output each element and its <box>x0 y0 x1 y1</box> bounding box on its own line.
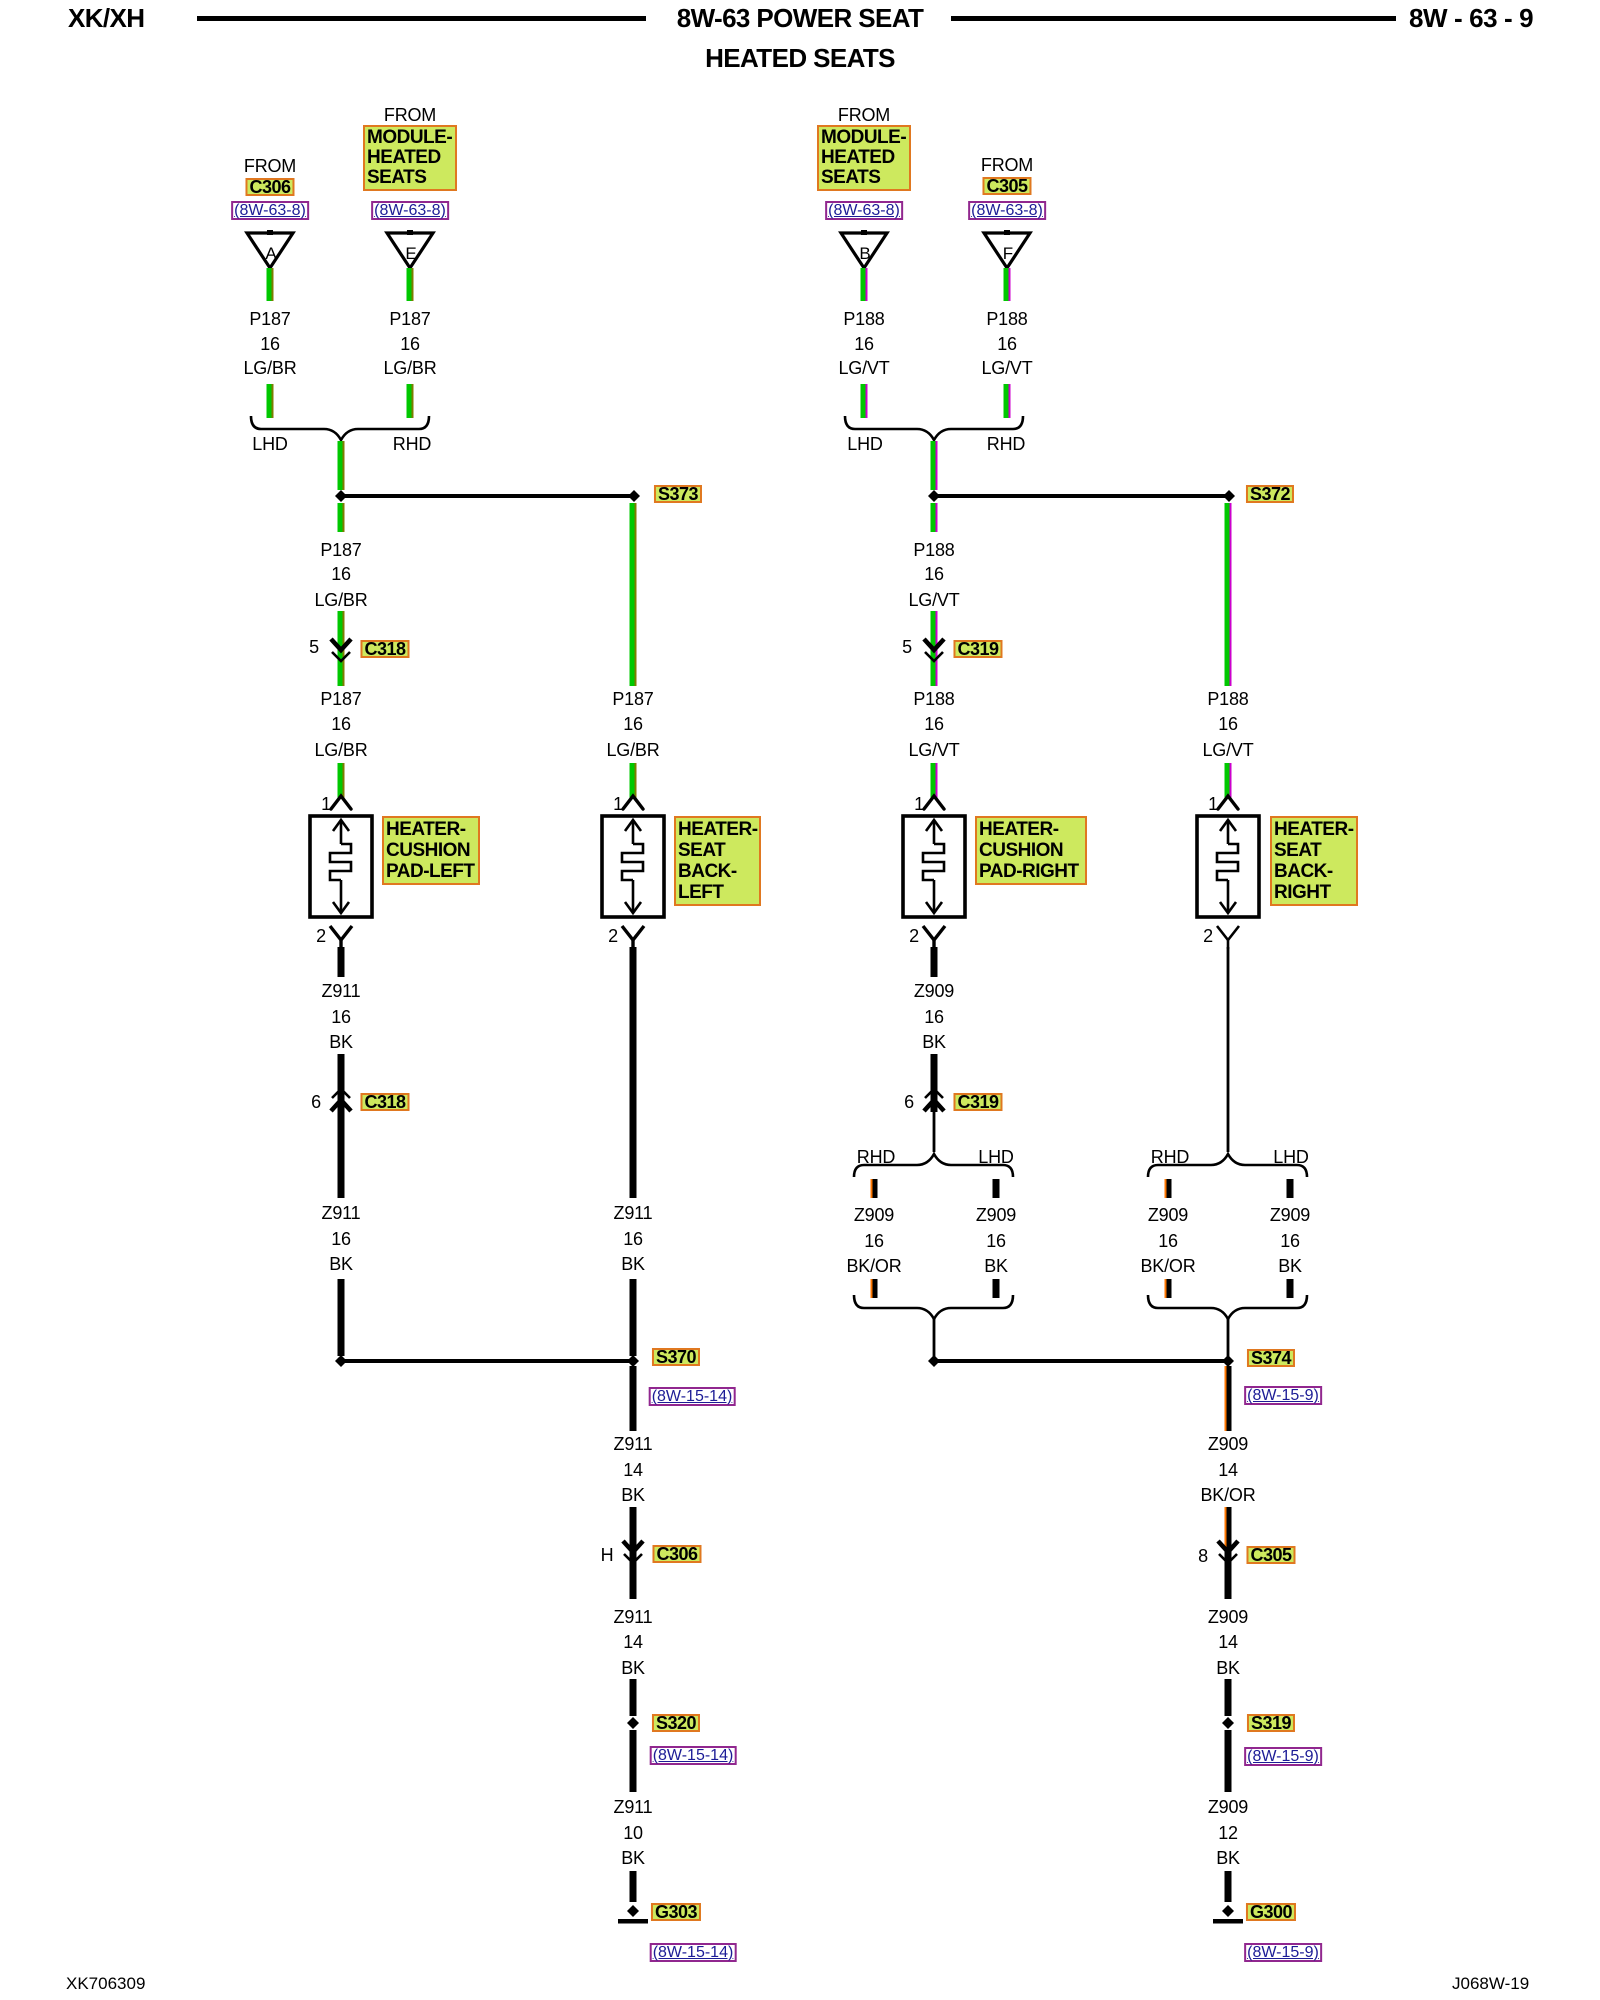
wire P188 below C319 label P188 <box>913 690 954 709</box>
wire S374 horizontal <box>934 1359 1228 1363</box>
brace RHD/LHD split (cushion right) <box>854 1154 1013 1177</box>
wire Z911 col2 upper <box>630 947 637 1198</box>
connector C318 label (pin 6) <box>360 1093 409 1111</box>
wire Z909 14 BK labels label BK <box>1216 1659 1240 1678</box>
link 8W-15-14 (S370) <box>649 1387 736 1406</box>
heater element - seat back right <box>1197 816 1259 917</box>
connector F (from C305) <box>984 230 1030 268</box>
brace RHD/LHD split (seat back right) <box>1148 1154 1307 1177</box>
wire P188 mid col3 label LG/VT <box>908 591 959 610</box>
splice S370 label <box>652 1348 700 1366</box>
wire P187 col2 label LG/BR <box>606 741 659 760</box>
wire Z911 10 to ground label 10 <box>623 1824 643 1843</box>
wire Z909 BK labels (seat back) label Z909 <box>1270 1206 1310 1225</box>
wire Z911 14 below S370 label BK <box>621 1486 645 1505</box>
label LHD (left merge) <box>252 435 287 454</box>
pin 1 fork (heater cushion left) <box>331 796 351 809</box>
wire Z911 col2 to S370 <box>630 1279 637 1356</box>
wire Z911 below C306 label BK <box>621 1659 645 1678</box>
wire P187 mid col1 label 16 <box>331 565 351 584</box>
pin 8 of C305 <box>1198 1547 1208 1566</box>
wire P187 below C318 label 16 <box>331 715 351 734</box>
splice S320 label <box>652 1714 700 1732</box>
wire Z909 BK/OR labels (cushion) label Z909 <box>854 1206 894 1225</box>
wire P188 col4 label 16 <box>1218 715 1238 734</box>
footer: drawing number left <box>66 1974 145 1994</box>
wire Z909 BK stub upper (LHD, cushion) <box>993 1179 1000 1198</box>
wire Z909 BK stub upper (LHD, seat back) <box>1287 1179 1294 1198</box>
wire P188 col B label LG/VT <box>838 359 889 378</box>
module-heated seats box (left) <box>363 125 457 191</box>
wire P188 col F label P188 <box>986 310 1027 329</box>
wire Z911 col2 label 16 <box>623 1230 643 1249</box>
pin 1 fork (heater seat back left) <box>623 796 643 809</box>
splice S373 node left <box>335 490 347 502</box>
link 8W-15-9 (S374) <box>1244 1386 1322 1405</box>
wire Z911 col2 label Z911 <box>614 1204 653 1223</box>
wire Z911 col1 lower label Z911 <box>322 1204 361 1223</box>
module-heated seats box (right) <box>817 125 911 191</box>
wire Z909 from C319 to brace <box>933 1112 936 1152</box>
pin 1 heater cushion right <box>914 795 924 814</box>
wire Z911 below heater cushion left <box>338 947 345 977</box>
page header: subtitle <box>705 45 895 71</box>
splice S370 node right <box>627 1355 639 1367</box>
wire P187 below C318 label P187 <box>320 690 361 709</box>
svg-text:F: F <box>1003 244 1013 263</box>
wire Z909 14 BK/OR labels label 14 <box>1218 1461 1238 1480</box>
heater-seat back-right label <box>1270 816 1358 906</box>
pin 2 heater seat back right <box>1203 927 1213 946</box>
wire Z909 to G300 <box>1225 1871 1232 1902</box>
wire S373 horizontal <box>341 494 633 498</box>
wire Z911 above C318 pin6 <box>338 1054 345 1198</box>
link 8W-15-14 (G303) <box>650 1943 737 1962</box>
brace LHD/RHD merge (right seat) <box>845 416 1023 440</box>
wire P187 col E label LG/BR <box>383 359 436 378</box>
splice S373 label <box>654 485 702 503</box>
wire P188 col F label LG/VT <box>981 359 1032 378</box>
pin 1 heater seat back right <box>1208 795 1218 814</box>
pin 2 heater cushion right <box>909 927 919 946</box>
label LHD (cushion right split) <box>978 1148 1013 1167</box>
wire Z911 col1 upper label BK <box>329 1033 353 1052</box>
ground G300 <box>1213 1905 1243 1924</box>
label LHD (seat back split) <box>1273 1148 1308 1167</box>
wire P187 col A label P187 <box>249 310 290 329</box>
wire Z911 below C306 label 14 <box>623 1633 643 1652</box>
heater-cushion pad-right label <box>975 816 1087 885</box>
wire Z911 10 to ground label Z911 <box>614 1798 653 1817</box>
wire Z909 col3 label Z909 <box>914 982 954 1001</box>
wire Z911 below S370 <box>630 1366 637 1431</box>
wire Z911 to S370 <box>338 1279 345 1356</box>
wire Z911 col2 label BK <box>621 1255 645 1274</box>
page header: section title <box>677 5 924 31</box>
wire P188 merged below brace <box>931 441 938 490</box>
pin 2 heater seat back left <box>608 927 618 946</box>
connector C319 pin 6 (inline) <box>924 1089 944 1111</box>
pin 2 fork (heater cushion right) <box>923 926 945 949</box>
splice S319 node <box>1222 1717 1234 1729</box>
connector C305 label (pin 8) <box>1246 1546 1295 1564</box>
connector C319 label (pin 6) <box>953 1093 1002 1111</box>
wire Z909 14 BK/OR labels label Z909 <box>1208 1435 1248 1454</box>
connector C318 label (pin 5) <box>360 640 409 658</box>
wire P188 stub above brace (F) <box>1004 384 1011 418</box>
wire P187 to heater cushion left pin 1 <box>338 763 345 799</box>
connector C305 label (top) <box>982 177 1031 195</box>
svg-text:A: A <box>265 244 277 263</box>
wire Z909 BK/OR below S374 <box>1225 1366 1232 1431</box>
wire Z911 14 below S370 label 14 <box>623 1461 643 1480</box>
wire P188 to heater cushion right pin1 <box>931 763 938 799</box>
wire P187 col E label P187 <box>389 310 430 329</box>
link 8W-15-9 (S319) <box>1244 1747 1322 1766</box>
wire Z909 from brace to S374 <box>933 1318 936 1357</box>
wire Z909 12 to ground label 12 <box>1218 1824 1238 1843</box>
pin 2 heater cushion left <box>316 927 326 946</box>
wire P188 col4 label P188 <box>1207 690 1248 709</box>
pin 5 of C319 <box>902 638 912 657</box>
splice S372 node left <box>928 490 940 502</box>
splice S372 node right <box>1223 490 1235 502</box>
wire P187 mid col1 label LG/BR <box>314 591 367 610</box>
connector C305 pin 8 (inline) <box>1218 1541 1238 1563</box>
brace merge to S374 (cushion right) <box>854 1295 1013 1319</box>
wire P188 mid col3 label P188 <box>913 541 954 560</box>
splice S319 label <box>1247 1714 1295 1732</box>
wire Z909 BK/OR labels (seat back) label 16 <box>1158 1232 1178 1251</box>
pin H of C306 <box>601 1546 614 1565</box>
wire Z911 col1 lower label BK <box>329 1255 353 1274</box>
pin 2 fork (heater seat back right) <box>1217 926 1239 949</box>
wire Z909 BK/OR labels (seat back) label Z909 <box>1148 1206 1188 1225</box>
wire Z911 col1 upper label 16 <box>331 1008 351 1027</box>
header rule left <box>197 16 646 21</box>
wire Z909 above S319 <box>1225 1679 1232 1716</box>
wire P188 stub above brace (B) <box>861 384 868 418</box>
header rule right <box>951 16 1396 21</box>
wire P187 col A label 16 <box>260 335 280 354</box>
connector B (from module-heated seats) <box>841 230 887 268</box>
wire Z911 14 below S370 label Z911 <box>614 1435 653 1454</box>
link 8W-15-14 (S320) <box>650 1746 737 1765</box>
connector C319 pin 5 (inline) <box>924 639 944 661</box>
wire Z911 above C306 <box>630 1507 637 1599</box>
heater element - seat back left <box>602 816 664 917</box>
wire P187 stub below A <box>267 268 274 301</box>
wire Z909 14 BK labels label 14 <box>1218 1633 1238 1652</box>
wire P188 stub below B <box>861 268 868 301</box>
wire P188 col B label 16 <box>854 335 874 354</box>
footer: drawing number right <box>1452 1974 1529 1994</box>
brace merge to S374 (seat back right) <box>1148 1295 1307 1319</box>
wire P187 stub above brace (E) <box>407 384 414 418</box>
pin 2 fork (heater seat back left) <box>622 926 644 949</box>
splice S370 node left <box>335 1355 347 1367</box>
splice S374 node right <box>1222 1355 1234 1367</box>
connector C319 label (pin 5) <box>953 640 1002 658</box>
splice S374 node left <box>928 1355 940 1367</box>
pin 5 of C318 <box>309 638 319 657</box>
splice S373 node right <box>628 490 640 502</box>
wire P188 below C319 label 16 <box>924 715 944 734</box>
connector C306 label (top) <box>245 178 294 196</box>
brace LHD/RHD merge (left seat) <box>251 416 429 440</box>
svg-text:E: E <box>405 244 416 263</box>
wire Z909 BK labels (cushion) label 16 <box>986 1232 1006 1251</box>
wire Z909 BK labels (cushion) label BK <box>984 1257 1008 1276</box>
pin 6 of C319 <box>904 1093 914 1112</box>
wire Z911 below C306 label Z911 <box>614 1608 653 1627</box>
wire Z909 14 BK labels label Z909 <box>1208 1608 1248 1627</box>
wire P187 to heater seat back left pin1 <box>630 763 637 799</box>
connector A (from C306) <box>247 230 293 268</box>
wire Z909 below heater seat back right <box>1227 947 1230 1152</box>
wire Z909 BK labels (seat back) label BK <box>1278 1257 1302 1276</box>
ground G303 label <box>651 1903 701 1921</box>
wire Z909 col3 label 16 <box>924 1008 944 1027</box>
label RHD (right merge) <box>987 435 1025 454</box>
label RHD (seat back split) <box>1151 1148 1189 1167</box>
pin 1 fork (heater cushion right) <box>924 796 944 809</box>
link 8W-63-8 (col A) <box>231 201 309 220</box>
wire P188 col F label 16 <box>997 335 1017 354</box>
wire Z911 10 to ground label BK <box>621 1849 645 1868</box>
link 8W-15-9 (G300) <box>1244 1943 1322 1962</box>
wire P187 merged below brace <box>338 441 345 490</box>
connector C318 pin 6 (inline) <box>331 1089 351 1111</box>
wire Z909 BK stub lower (LHD, seat back) <box>1287 1279 1294 1298</box>
wire P187 col2 label P187 <box>612 690 653 709</box>
wire P188 above C319 <box>931 611 938 686</box>
splice S320 node <box>627 1717 639 1729</box>
wire Z911 col1 upper label Z911 <box>322 982 361 1001</box>
wire P187 col2 label 16 <box>623 715 643 734</box>
connector C306 label (pin H) <box>652 1545 701 1563</box>
wire P188 mid col3 label 16 <box>924 565 944 584</box>
wire Z909 BK/OR labels (cushion) label BK/OR <box>846 1257 901 1276</box>
link 8W-63-8 (col F) <box>968 201 1046 220</box>
wire P187 below S373 col2 <box>630 503 637 686</box>
wire Z911 col1 lower label 16 <box>331 1230 351 1249</box>
link 8W-63-8 (col E) <box>371 201 449 220</box>
pin 1 heater seat back left <box>613 795 623 814</box>
splice S372 label <box>1246 485 1294 503</box>
ground G300 label <box>1246 1903 1296 1921</box>
wire Z909 from brace to S374 right <box>1227 1318 1230 1357</box>
wire Z909 BK labels (seat back) label 16 <box>1280 1232 1300 1251</box>
wire P187 col A label LG/BR <box>243 359 296 378</box>
wire Z909 12 to ground label BK <box>1216 1849 1240 1868</box>
wire Z909 BK/OR stub lower (RHD, seat back) <box>1165 1279 1172 1298</box>
wire Z909 14 BK/OR labels label BK/OR <box>1200 1486 1255 1505</box>
wire P187 below S373 <box>338 503 345 532</box>
wire P188 below S372 col4 <box>1225 503 1232 686</box>
wire Z911 to G303 <box>630 1871 637 1902</box>
pin 1 heater cushion left <box>321 795 331 814</box>
page header: vehicle code <box>68 5 144 31</box>
wire Z909 BK stub lower (LHD, cushion) <box>993 1279 1000 1298</box>
ground G303 <box>618 1905 648 1924</box>
wire Z909 above C319 pin6 <box>931 1054 938 1112</box>
pin 2 fork (heater cushion left) <box>330 926 352 949</box>
splice S374 label <box>1247 1349 1295 1367</box>
connector C306 pin H (inline) <box>623 1541 643 1563</box>
node A source FROM <box>244 157 296 176</box>
wire Z909 below S319 <box>1225 1730 1232 1792</box>
wire P188 stub below F <box>1004 268 1011 301</box>
connector E (from module-heated seats) <box>387 230 433 268</box>
wire Z909 below heater cushion right <box>931 947 938 977</box>
wire P188 col B label P188 <box>843 310 884 329</box>
wire Z909 BK/OR above C305 <box>1225 1507 1232 1550</box>
wire P187 col E label 16 <box>400 335 420 354</box>
wire Z909 12 to ground label Z909 <box>1208 1798 1248 1817</box>
label LHD (right merge) <box>847 435 882 454</box>
heater element - cushion pad left <box>310 816 372 917</box>
connector C318 pin 5 (inline) <box>331 639 351 661</box>
wire Z909 BK/OR stub upper (RHD, seat back) <box>1165 1179 1172 1198</box>
wire P188 col4 label LG/VT <box>1202 741 1253 760</box>
wire Z909 below C305 <box>1225 1550 1232 1599</box>
wire P187 mid col1 label P187 <box>320 541 361 560</box>
heater element - cushion pad right <box>903 816 965 917</box>
wire Z909 BK/OR stub lower (RHD, cushion) <box>871 1279 878 1298</box>
wire P188 below S372 <box>931 503 938 532</box>
wire P187 stub above brace (A) <box>267 384 274 418</box>
wire Z911 below S320 <box>630 1730 637 1792</box>
node F source FROM <box>981 156 1033 175</box>
wire S372 horizontal <box>934 494 1229 498</box>
heater-cushion pad-left label <box>382 816 480 885</box>
wire P187 below C318 label LG/BR <box>314 741 367 760</box>
wire S370 horizontal <box>341 1359 633 1363</box>
link 8W-63-8 (col B) <box>825 201 903 220</box>
heater-seat back-left label <box>674 816 761 906</box>
wire P188 to heater seat back right pin1 <box>1225 763 1232 799</box>
page header: page number <box>1409 5 1533 31</box>
wire Z909 BK labels (cushion) label Z909 <box>976 1206 1016 1225</box>
module source FROM (B) <box>838 106 890 125</box>
pin 6 of C318 <box>311 1093 321 1112</box>
wire P188 below C319 label LG/VT <box>908 741 959 760</box>
wire Z909 BK/OR labels (cushion) label 16 <box>864 1232 884 1251</box>
label RHD (left merge) <box>393 435 431 454</box>
svg-text:B: B <box>859 244 870 263</box>
wire P187 above C318 <box>338 611 345 686</box>
wire Z909 BK/OR labels (seat back) label BK/OR <box>1140 1257 1195 1276</box>
label RHD (cushion right split) <box>857 1148 895 1167</box>
pin 1 fork (heater seat back right) <box>1218 796 1238 809</box>
wire P187 stub below E <box>407 268 414 301</box>
wire Z909 col3 label BK <box>922 1033 946 1052</box>
module source FROM (E) <box>384 106 436 125</box>
wire Z909 BK/OR stub upper (RHD, cushion) <box>871 1179 878 1198</box>
wire Z911 above S320 <box>630 1679 637 1716</box>
